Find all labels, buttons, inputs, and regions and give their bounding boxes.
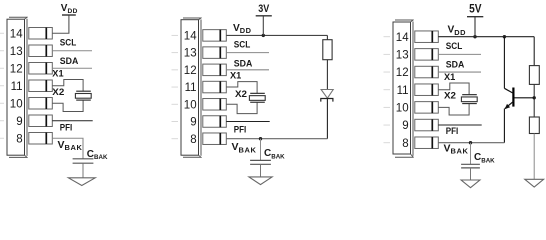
svg-text:13: 13 — [10, 46, 23, 58]
svg-text:12: 12 — [10, 63, 23, 75]
wire PFI — [226, 121, 269, 123]
svg-text:X1: X1 — [52, 69, 64, 80]
transistor Q1 — [504, 88, 513, 110]
wire 5V rail to resistor R1 — [533, 37, 535, 66]
U1 pin 10 box — [29, 98, 53, 110]
svg-text:13: 13 — [396, 49, 409, 61]
wire emitter to VBAK rail — [503, 109, 505, 143]
capacitor CBAK (block 3) — [461, 143, 480, 180]
svg-text:11: 11 — [11, 81, 23, 93]
power 5V riser — [474, 17, 476, 37]
wire SDA — [438, 71, 481, 73]
IC U1 left-side pin stubs (faint) — [0, 33, 4, 138]
svg-text:PFI: PFI — [60, 122, 73, 133]
svg-text:3V: 3V — [258, 3, 269, 15]
U2 pin 8 box — [203, 133, 227, 145]
svg-text:13: 13 — [184, 48, 197, 60]
U3 pin 13 box — [415, 49, 439, 61]
U3 pin 9 box — [415, 119, 439, 131]
power 3V riser — [262, 16, 264, 36]
wire collector to 5V rail — [503, 37, 505, 89]
U1 pin 8 box — [29, 133, 53, 145]
svg-text:X1: X1 — [444, 72, 456, 83]
U3 pin 12 box — [415, 66, 439, 78]
svg-text:9: 9 — [402, 120, 408, 132]
junction dot collector/5V rail — [503, 35, 506, 38]
svg-text:12: 12 — [184, 65, 197, 77]
U1 pin 9 box — [29, 115, 53, 127]
wire X1 to crystal — [438, 83, 469, 95]
svg-text:5V: 5V — [469, 2, 482, 15]
U3 pin 10 box — [415, 102, 439, 114]
svg-text:9: 9 — [16, 116, 22, 128]
resistor R1 (top, block 3) — [529, 66, 539, 85]
svg-text:PFI: PFI — [446, 126, 459, 137]
svg-text:14: 14 — [396, 32, 409, 44]
wire PFI — [438, 124, 481, 126]
U1 pin 14 box — [29, 28, 53, 40]
svg-text:11: 11 — [185, 82, 197, 94]
junction dot VBAK/CBAK (block 3) — [469, 141, 472, 144]
U2 pin 12 box — [203, 64, 227, 76]
power 3V bar — [256, 15, 272, 17]
svg-text:8: 8 — [16, 133, 22, 145]
wire diode to VBAK rail — [326, 99, 328, 139]
wire R1 to base node — [533, 84, 535, 117]
wire resistor to diode — [326, 60, 328, 90]
wire VDD rail (block 2) — [226, 34, 327, 36]
capacitor CBAK (block 2) — [250, 139, 271, 177]
svg-text:8: 8 — [402, 138, 408, 150]
IC U2 body — [181, 18, 202, 158]
svg-text:X2: X2 — [235, 89, 247, 100]
U1 pin 13 box — [29, 45, 53, 57]
wire base — [513, 97, 534, 99]
svg-text:12: 12 — [396, 67, 409, 79]
U3 pin 8 box — [415, 137, 439, 149]
IC U3 body — [393, 20, 414, 158]
svg-text:11: 11 — [397, 85, 409, 97]
wire X1 to crystal — [226, 82, 257, 94]
svg-text:10: 10 — [184, 99, 197, 111]
IC U1 body — [7, 17, 28, 158]
U1 pin 11 box — [29, 80, 53, 92]
capacitor CBAK (block 1) — [73, 159, 94, 178]
wire VBAK (block 2) — [226, 138, 327, 140]
U2 pin 10 box — [203, 99, 227, 111]
IC U3 left-side pin stubs (faint) — [384, 37, 391, 143]
svg-text:SDA: SDA — [446, 60, 465, 71]
svg-text:10: 10 — [10, 98, 23, 110]
junction dot base node — [533, 96, 536, 99]
wire VBAK to CBAK — [52, 138, 83, 159]
resistor R (block 2) — [323, 40, 332, 60]
svg-text:14: 14 — [10, 28, 23, 40]
svg-text:X2: X2 — [52, 87, 64, 98]
wire SCL — [438, 53, 481, 55]
svg-text:SCL: SCL — [446, 41, 463, 52]
ground (block 1) — [68, 178, 95, 186]
U2 pin 11 box — [203, 81, 227, 93]
ground (block 2) — [249, 177, 272, 185]
wire SCL — [226, 52, 269, 54]
ground (block 3 right) — [525, 179, 544, 187]
svg-text:X2: X2 — [444, 90, 456, 101]
wire X2 to crystal — [438, 104, 469, 115]
wire VBAK (block 3) — [438, 142, 504, 144]
wire X2 to crystal — [226, 102, 257, 113]
wire SCL — [52, 50, 92, 52]
svg-text:14: 14 — [184, 31, 197, 43]
power 5V bar — [467, 16, 483, 18]
wire PFI — [52, 120, 92, 122]
crystal Y (U2) — [249, 93, 265, 102]
U2 pin 14 box — [203, 30, 227, 42]
crystal Y (U3) — [461, 95, 477, 104]
wire 3V rail down to resistor — [326, 35, 328, 39]
junction dot 3V/VDD — [262, 34, 265, 37]
junction dot VBAK/CBAK (block 2) — [259, 137, 262, 140]
U3 pin 11 box — [415, 84, 439, 96]
svg-text:SDA: SDA — [60, 56, 79, 67]
svg-text:8: 8 — [190, 134, 196, 146]
junction dot 5V/VDD — [473, 35, 476, 38]
wire SDA — [226, 69, 269, 71]
wire VDD rail (block 3) — [438, 36, 534, 38]
diode D (zener) — [321, 90, 333, 102]
crystal Y (U1) — [75, 91, 91, 100]
svg-text:SCL: SCL — [234, 40, 251, 51]
IC U2 left-side pin stubs (faint) — [172, 35, 179, 138]
power VDD bar — [62, 14, 76, 16]
svg-text:10: 10 — [396, 102, 409, 114]
wire SDA — [52, 67, 92, 69]
U2 pin 13 box — [203, 47, 227, 59]
wire X1 to crystal — [52, 80, 83, 92]
U1 pin 12 box — [29, 63, 53, 75]
svg-text:SCL: SCL — [60, 37, 77, 48]
resistor R2 (bottom, block 3) — [529, 117, 539, 134]
svg-text:SDA: SDA — [234, 58, 253, 69]
U3 pin 14 box — [415, 31, 439, 43]
U2 pin 9 box — [203, 116, 227, 128]
wire R2 to ground — [533, 134, 535, 180]
wire X2 to crystal — [52, 100, 83, 111]
wire VDD (pin 14 to supply) — [52, 15, 69, 33]
svg-text:PFI: PFI — [234, 125, 247, 136]
ground (block 3 cap) — [461, 180, 480, 188]
svg-text:X1: X1 — [230, 71, 242, 82]
svg-text:9: 9 — [190, 117, 196, 129]
